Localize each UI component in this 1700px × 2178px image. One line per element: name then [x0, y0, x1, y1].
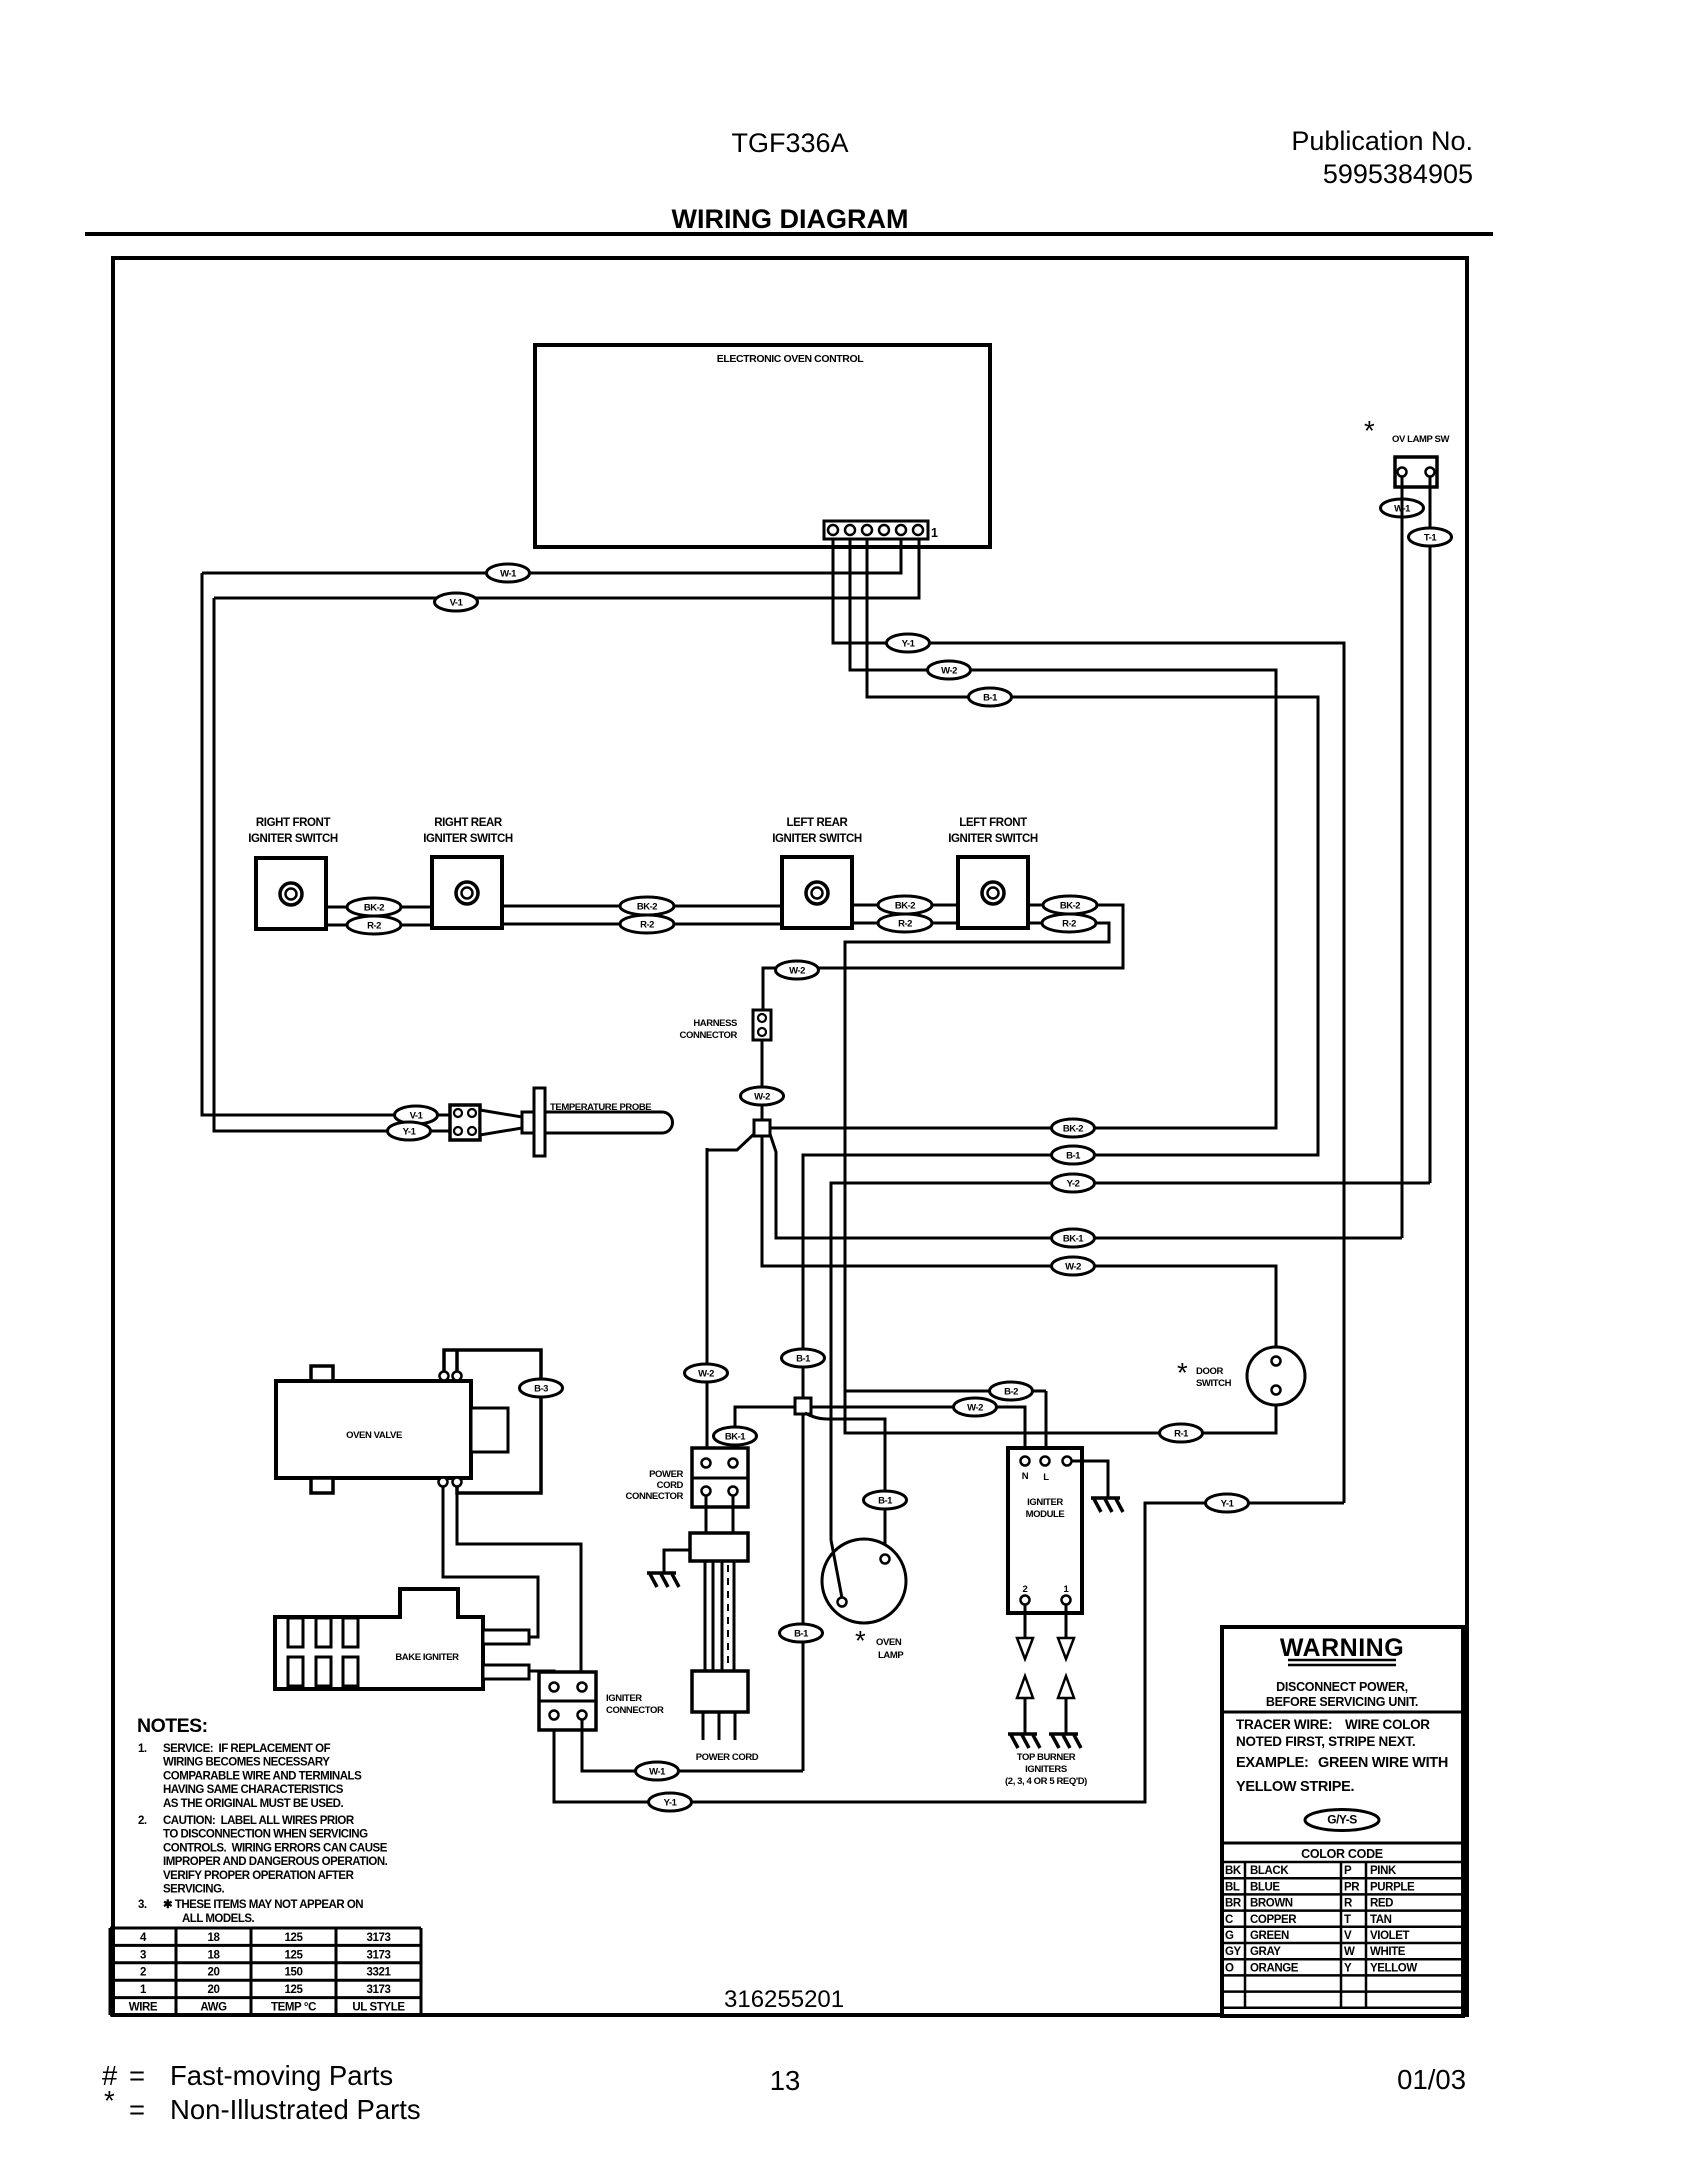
svg-text:R-2: R-2 — [1062, 919, 1076, 930]
svg-text:316255201: 316255201 — [724, 1986, 844, 2013]
svg-text:3: 3 — [140, 1949, 146, 1961]
svg-text:BK-1: BK-1 — [725, 1432, 746, 1443]
svg-text:Y: Y — [1344, 1962, 1352, 1974]
ground power cord — [647, 1573, 679, 1587]
diagram border — [113, 258, 1467, 2015]
wire lamp switch left pin down — [1401, 476, 1404, 1238]
svg-text:3173: 3173 — [367, 1984, 391, 1996]
svg-text:20: 20 — [208, 1984, 220, 1996]
wire harness to upper node — [761, 1040, 764, 1121]
svg-text:LEFT FRONT: LEFT FRONT — [959, 817, 1027, 829]
top burner igniter electrode — [1008, 1734, 1040, 1748]
svg-text:1.: 1. — [138, 1743, 147, 1755]
svg-text:Non-Illustrated Parts: Non-Illustrated Parts — [170, 2094, 421, 2125]
svg-text:EXAMPLE:: EXAMPLE: — [1236, 1755, 1309, 1771]
svg-text:IGNITER SWITCH: IGNITER SWITCH — [423, 833, 513, 845]
power cord upper block — [690, 1533, 748, 1561]
svg-text:3173: 3173 — [367, 1932, 391, 1944]
wire label W-2 — [776, 961, 819, 979]
svg-text:IGNITER SWITCH: IGNITER SWITCH — [248, 833, 338, 845]
wire label W-1 — [636, 1762, 679, 1780]
bake igniter terminal tab lower — [483, 1665, 529, 1679]
top burner igniter electrode — [1049, 1734, 1081, 1748]
svg-text:W-2: W-2 — [754, 1092, 770, 1103]
svg-text:C: C — [1225, 1914, 1233, 1926]
svg-text:WARNING: WARNING — [1280, 1634, 1404, 1662]
igniter module box — [1008, 1448, 1082, 1613]
svg-text:ORANGE: ORANGE — [1250, 1962, 1299, 1974]
svg-text:OV LAMP SW: OV LAMP SW — [1392, 434, 1449, 445]
wire label B-1 — [1052, 1146, 1095, 1164]
wire BK-2 loop to harness connector — [763, 905, 1123, 1010]
svg-text:Y-1: Y-1 — [664, 1798, 678, 1809]
svg-text:BLACK: BLACK — [1250, 1865, 1289, 1877]
wire label R-2 — [347, 916, 401, 934]
module pin L — [1041, 1457, 1050, 1466]
svg-text:BK-2: BK-2 — [1063, 1124, 1083, 1135]
wire label BK-1 — [714, 1427, 757, 1445]
door switch top contact — [1272, 1357, 1281, 1366]
svg-text:BK-1: BK-1 — [1063, 1234, 1084, 1245]
svg-text:TRACER WIRE:: TRACER WIRE: — [1236, 1717, 1332, 1732]
svg-text:Fast-moving Parts: Fast-moving Parts — [170, 2060, 393, 2091]
wire label Y-1 — [649, 1793, 692, 1811]
svg-text:CONNECTOR: CONNECTOR — [680, 1030, 738, 1041]
power cord wires — [704, 1561, 707, 1671]
svg-text:WHITE: WHITE — [1370, 1946, 1406, 1958]
wire connector to cord block — [705, 1495, 708, 1533]
svg-text:WIRE COLOR: WIRE COLOR — [1345, 1717, 1430, 1732]
door switch bottom contact — [1272, 1386, 1281, 1395]
oven valve top tab — [311, 1366, 333, 1381]
svg-text:G/Y-S: G/Y-S — [1327, 1813, 1357, 1827]
svg-text:18: 18 — [208, 1932, 221, 1944]
svg-text:2: 2 — [140, 1967, 146, 1979]
svg-text:OVEN VALVE: OVEN VALVE — [346, 1430, 402, 1441]
wire label BK-2 — [620, 897, 674, 915]
wire R-2 seg3 — [852, 922, 958, 925]
wire to oven lamp left terminal — [831, 1183, 1430, 1540]
wire EOC pin1 Y-1 down right side — [833, 540, 1344, 1503]
EOC pin 5 — [845, 525, 855, 535]
module output lead — [1065, 1604, 1068, 1638]
svg-text:W-2: W-2 — [698, 1369, 714, 1380]
probe connector block — [450, 1105, 480, 1140]
svg-text:IGNITERS: IGNITERS — [1025, 1764, 1067, 1775]
svg-text:B-2: B-2 — [1004, 1387, 1018, 1398]
igniter switch box — [782, 857, 852, 928]
svg-text:B-1: B-1 — [1066, 1151, 1081, 1162]
svg-text:3.: 3. — [138, 1899, 147, 1911]
electronic oven control box — [535, 345, 990, 547]
wire R-2 seg2 — [504, 923, 782, 926]
probe flange plate — [534, 1088, 545, 1156]
oven lamp switch box — [1395, 457, 1437, 487]
svg-text:R-2: R-2 — [367, 921, 381, 932]
svg-text:GRAY: GRAY — [1250, 1946, 1281, 1958]
svg-text:AWG: AWG — [200, 2002, 227, 2014]
svg-text:N: N — [1022, 1471, 1029, 1482]
module pin 2 — [1021, 1596, 1030, 1605]
bake igniter terminal tab upper — [483, 1630, 529, 1644]
svg-text:=: = — [129, 2060, 145, 2091]
bake igniter slot — [316, 1657, 331, 1686]
svg-text:3321: 3321 — [367, 1967, 392, 1979]
svg-text:W-2: W-2 — [1065, 1262, 1081, 1273]
wire label Y-1 — [887, 634, 930, 652]
wire tab2 to igniter connector top left — [529, 1671, 554, 1683]
svg-text:P: P — [1344, 1865, 1352, 1877]
wire to power cord ground — [664, 1550, 690, 1572]
igniter switch box — [432, 857, 502, 928]
wire branch to igniter module L — [845, 1390, 1046, 1393]
svg-text:CORD: CORD — [657, 1480, 684, 1491]
svg-text:GREEN: GREEN — [1250, 1930, 1289, 1942]
igniter switch box — [256, 858, 326, 929]
svg-text:V: V — [1344, 1930, 1352, 1942]
svg-text:SERVICE: IF REPLACEMENT OF: SERVICE: IF REPLACEMENT OF — [163, 1743, 331, 1755]
svg-text:Publication No.: Publication No. — [1291, 126, 1473, 156]
oven valve right terminal stub — [455, 1350, 459, 1374]
svg-text:13: 13 — [770, 2065, 801, 2096]
svg-text:*: * — [104, 2085, 115, 2116]
svg-text:COPPER: COPPER — [1250, 1914, 1297, 1926]
svg-text:BK-2: BK-2 — [364, 903, 384, 914]
module pin 1 — [1062, 1596, 1071, 1605]
svg-text:BK-2: BK-2 — [895, 901, 915, 912]
svg-text:CONNECTOR: CONNECTOR — [626, 1491, 684, 1502]
svg-text:5995384905: 5995384905 — [1323, 159, 1473, 189]
wire left vertical to temperature probe top — [202, 573, 450, 1115]
svg-text:BK-2: BK-2 — [637, 902, 657, 913]
svg-text:TEMP °C: TEMP °C — [271, 2002, 316, 2014]
svg-text:UL STYLE: UL STYLE — [352, 2002, 405, 2014]
wire label Y-1 — [388, 1122, 431, 1140]
door switch body — [1247, 1347, 1305, 1405]
svg-text:RED: RED — [1370, 1898, 1393, 1910]
svg-text:BROWN: BROWN — [1250, 1898, 1293, 1910]
wire EOC pin5 to left W-1 — [202, 540, 901, 573]
wire label BK-2 — [1052, 1119, 1095, 1137]
color code table — [1222, 1842, 1463, 1845]
svg-text:B-1: B-1 — [878, 1496, 893, 1507]
module pin ground — [1063, 1457, 1072, 1466]
svg-text:W: W — [1344, 1946, 1355, 1958]
svg-text:T: T — [1344, 1914, 1351, 1926]
svg-text:IGNITER SWITCH: IGNITER SWITCH — [948, 833, 1038, 845]
svg-text:TOP BURNER: TOP BURNER — [1017, 1752, 1076, 1763]
svg-text:W-2: W-2 — [941, 666, 957, 677]
wire label BK-1 — [1052, 1229, 1095, 1247]
wire label T-1 — [1409, 528, 1452, 546]
svg-text:2.: 2. — [138, 1815, 147, 1827]
svg-text:PINK: PINK — [1370, 1865, 1397, 1877]
EOC connector strip — [824, 521, 928, 539]
harness connector — [753, 1010, 771, 1040]
svg-text:IGNITER SWITCH: IGNITER SWITCH — [772, 833, 862, 845]
svg-text:R-1: R-1 — [1174, 1429, 1189, 1440]
top burner electrode lead — [1024, 1698, 1027, 1733]
wire label W-2 — [928, 661, 971, 679]
svg-text:DOOR: DOOR — [1196, 1366, 1223, 1377]
svg-text:✱ THESE ITEMS MAY NOT APPEAR O: ✱ THESE ITEMS MAY NOT APPEAR ON — [163, 1899, 363, 1911]
bake igniter body — [275, 1589, 483, 1689]
wire label W-2 — [954, 1398, 997, 1416]
wire label R-2 — [1042, 914, 1096, 932]
svg-text:NOTES:: NOTES: — [137, 1715, 208, 1737]
EOC pin 6 — [828, 525, 838, 535]
svg-text:OVEN: OVEN — [876, 1637, 902, 1648]
svg-text:1: 1 — [140, 1984, 147, 1996]
wire module to ground — [1071, 1461, 1108, 1497]
wire label B-3 — [520, 1379, 563, 1397]
svg-text:WIRING BECOMES NECESSARY: WIRING BECOMES NECESSARY — [163, 1757, 330, 1769]
svg-text:Y-1: Y-1 — [1221, 1499, 1235, 1510]
EOC pin 3 — [879, 525, 889, 535]
svg-text:W-1: W-1 — [500, 569, 517, 580]
svg-text:COMPARABLE WIRE AND TERMINALS: COMPARABLE WIRE AND TERMINALS — [163, 1770, 362, 1782]
svg-text:TAN: TAN — [1370, 1914, 1392, 1926]
svg-text:BLUE: BLUE — [1250, 1881, 1280, 1893]
svg-text:R-2: R-2 — [640, 920, 654, 931]
wire node down to door switch top pin — [762, 1136, 1276, 1357]
svg-text:TGF336A: TGF336A — [731, 128, 848, 158]
svg-text:Y-1: Y-1 — [902, 639, 916, 650]
svg-text:POWER CORD: POWER CORD — [696, 1752, 759, 1763]
probe hub — [522, 1112, 540, 1133]
wire BK-2 seg3 — [852, 904, 958, 907]
power cord prong — [718, 1712, 721, 1740]
wire valve to igniter connector top right — [457, 1486, 581, 1683]
svg-text:IGNITER: IGNITER — [1027, 1497, 1063, 1508]
wire node curve to oven lamp right terminal — [805, 1413, 885, 1555]
wire label W-2 — [741, 1087, 784, 1105]
wire node to power cord connector right pin — [735, 1407, 795, 1459]
wire label R-2 — [620, 915, 674, 933]
svg-text:W-1: W-1 — [649, 1767, 666, 1778]
svg-text:BEFORE SERVICING UNIT.: BEFORE SERVICING UNIT. — [1266, 1695, 1418, 1709]
wire label Y-1 — [1206, 1494, 1249, 1512]
wire label BK-2 — [347, 898, 401, 916]
oven lamp body — [822, 1539, 906, 1623]
oven valve bottom tab — [311, 1478, 333, 1493]
svg-text:=: = — [129, 2094, 145, 2125]
svg-text:Y-1: Y-1 — [403, 1127, 417, 1138]
svg-text:BAKE IGNITER: BAKE IGNITER — [395, 1652, 459, 1663]
svg-text:HAVING SAME CHARACTERISTICS: HAVING SAME CHARACTERISTICS — [163, 1784, 344, 1796]
wire R-2 seg1 — [326, 924, 432, 927]
tracer example oval — [1305, 1810, 1379, 1831]
svg-text:ELECTRONIC OVEN CONTROL: ELECTRONIC OVEN CONTROL — [717, 353, 865, 365]
svg-text:BK-2: BK-2 — [1060, 901, 1080, 912]
svg-text:RIGHT FRONT: RIGHT FRONT — [256, 817, 331, 829]
oven valve terminal bottom right — [453, 1478, 462, 1487]
wire label W-2 — [685, 1364, 728, 1382]
svg-text:TO DISCONNECTION WHEN SERVICIN: TO DISCONNECTION WHEN SERVICING — [163, 1829, 368, 1841]
svg-text:(2, 3, 4 OR 5 REQ'D): (2, 3, 4 OR 5 REQ'D) — [1005, 1776, 1087, 1787]
wire node to power cord connector left — [707, 1134, 754, 1150]
svg-text:VERIFY PROPER OPERATION AFTER: VERIFY PROPER OPERATION AFTER — [163, 1870, 355, 1882]
svg-text:1: 1 — [931, 526, 938, 540]
wire right return to igniter connector — [554, 1503, 1344, 1802]
wire down to pin L — [1045, 1391, 1048, 1457]
svg-text:L: L — [1043, 1472, 1049, 1483]
svg-text:150: 150 — [285, 1967, 303, 1979]
wire label BK-2 — [1043, 896, 1097, 914]
svg-text:IGNITER: IGNITER — [606, 1693, 642, 1704]
bake igniter slot — [288, 1657, 303, 1686]
svg-text:PR: PR — [1344, 1881, 1360, 1893]
oven lamp terminal left — [838, 1598, 847, 1607]
wire EOC pin3 to lower node — [803, 540, 1318, 1398]
svg-text:POWER: POWER — [649, 1469, 683, 1480]
svg-text:125: 125 — [285, 1984, 304, 1996]
svg-text:PURPLE: PURPLE — [1370, 1881, 1415, 1893]
oven valve terminal top left — [440, 1372, 449, 1381]
svg-text:CONNECTOR: CONNECTOR — [606, 1705, 664, 1716]
svg-text:125: 125 — [285, 1949, 304, 1961]
module output lead — [1024, 1604, 1027, 1638]
wire EOC pin6 to left V-1 — [214, 540, 919, 598]
svg-text:YELLOW: YELLOW — [1370, 1962, 1417, 1974]
probe rod — [545, 1112, 673, 1133]
svg-text:V-1: V-1 — [450, 598, 464, 609]
svg-text:SERVICING.: SERVICING. — [163, 1884, 225, 1896]
wire R-2 loop down to door switch — [845, 923, 1276, 1433]
wire node to oven lamp switch left pin — [770, 1134, 1402, 1238]
bake igniter slot — [343, 1618, 358, 1647]
bake igniter slot — [288, 1618, 303, 1647]
svg-text:125: 125 — [285, 1932, 304, 1944]
svg-text:AS THE ORIGINAL MUST BE USED.: AS THE ORIGINAL MUST BE USED. — [163, 1798, 343, 1810]
wire label R-1 — [1160, 1424, 1203, 1442]
wire label B-1 — [969, 688, 1012, 706]
EOC pin 2 — [896, 525, 906, 535]
wire label V-1 — [395, 1106, 438, 1124]
bake igniter slot — [343, 1657, 358, 1686]
svg-text:W-2: W-2 — [789, 966, 805, 977]
module pin N — [1021, 1457, 1030, 1466]
svg-text:BR: BR — [1225, 1898, 1242, 1910]
oven lamp terminal right — [881, 1555, 890, 1564]
svg-text:B-3: B-3 — [534, 1384, 548, 1395]
svg-text:VIOLET: VIOLET — [1370, 1930, 1410, 1942]
svg-text:WIRING DIAGRAM: WIRING DIAGRAM — [672, 204, 909, 234]
top burner electrode lead — [1065, 1698, 1068, 1733]
power cord prong — [734, 1712, 737, 1740]
wire EOC pin2 to upper node — [770, 540, 1276, 1128]
oven valve side lug — [471, 1408, 508, 1452]
svg-text:G: G — [1225, 1930, 1234, 1942]
igniter switch box — [958, 857, 1028, 928]
svg-text:2: 2 — [1023, 1584, 1028, 1595]
warning box — [1222, 1627, 1463, 2016]
svg-text:GY: GY — [1225, 1946, 1242, 1958]
power cord prong — [702, 1712, 705, 1740]
oven valve box — [276, 1381, 471, 1478]
svg-text:*: * — [1177, 1357, 1188, 1388]
title underline — [85, 232, 1493, 236]
svg-text:20: 20 — [208, 1967, 220, 1979]
svg-text:R-2: R-2 — [898, 919, 912, 930]
wire igniter connector to power-cord node chain — [582, 1719, 803, 1771]
svg-text:WIRE: WIRE — [129, 2002, 158, 2014]
wire label B-2 — [990, 1382, 1033, 1400]
svg-text:IMPROPER AND DANGEROUS OPERATI: IMPROPER AND DANGEROUS OPERATION. — [163, 1856, 388, 1868]
svg-text:*: * — [1364, 415, 1375, 446]
wire label W-1 — [487, 564, 530, 582]
bake igniter slot — [316, 1618, 331, 1647]
wire label BK-2 — [878, 896, 932, 914]
oven valve terminal bottom left — [439, 1478, 448, 1487]
power cord lower block — [692, 1671, 748, 1712]
wire lower node down to W-1 chain — [802, 1413, 805, 1771]
wire label W-1 — [1381, 499, 1424, 517]
wire node to igniter module N — [811, 1407, 1025, 1457]
wire valve to bake igniter tab1 — [443, 1486, 538, 1637]
wire label W-2 — [1052, 1257, 1095, 1275]
svg-text:LEFT REAR: LEFT REAR — [787, 817, 849, 829]
svg-text:V-1: V-1 — [410, 1111, 424, 1122]
svg-text:BL: BL — [1225, 1881, 1240, 1893]
svg-text:B-1: B-1 — [794, 1629, 809, 1640]
svg-text:COLOR CODE: COLOR CODE — [1301, 1847, 1383, 1861]
oven valve terminal top right — [453, 1372, 462, 1381]
wire label B-1 — [782, 1349, 825, 1367]
svg-text:YELLOW STRIPE.: YELLOW STRIPE. — [1236, 1779, 1355, 1795]
wire label B-1 — [864, 1491, 907, 1509]
svg-text:Y-2: Y-2 — [1067, 1179, 1080, 1190]
svg-text:T-1: T-1 — [1424, 533, 1437, 544]
svg-text:B-1: B-1 — [796, 1354, 811, 1365]
svg-text:DISCONNECT POWER,: DISCONNECT POWER, — [1276, 1680, 1408, 1694]
svg-text:CAUTION: LABEL ALL WIRES PRIO: CAUTION: LABEL ALL WIRES PRIOR — [163, 1815, 355, 1827]
svg-text:TEMPERATURE PROBE: TEMPERATURE PROBE — [550, 1102, 651, 1113]
svg-text:R: R — [1344, 1898, 1353, 1910]
svg-text:18: 18 — [208, 1949, 221, 1961]
svg-text:01/03: 01/03 — [1397, 2064, 1466, 2095]
wire label B-1 — [780, 1624, 823, 1642]
wire BK-2 seg2 — [504, 905, 782, 908]
oven valve wire loop — [444, 1350, 541, 1493]
svg-text:ALL MODELS.: ALL MODELS. — [182, 1913, 255, 1925]
junction node upper — [754, 1120, 770, 1136]
wire lamp switch right pin down — [1429, 476, 1432, 1183]
svg-text:GREEN WIRE WITH: GREEN WIRE WITH — [1318, 1755, 1448, 1771]
svg-text:4: 4 — [140, 1932, 147, 1944]
svg-text:BK: BK — [1225, 1865, 1242, 1877]
EOC pin 1 — [913, 525, 923, 535]
EOC pin 4 — [862, 525, 872, 535]
svg-text:MODULE: MODULE — [1026, 1509, 1065, 1520]
wire label R-2 — [878, 914, 932, 932]
ground igniter module — [1091, 1498, 1123, 1512]
svg-text:W-2: W-2 — [967, 1403, 983, 1414]
oven lamp filament lead — [831, 1540, 842, 1598]
svg-text:HARNESS: HARNESS — [693, 1018, 737, 1029]
svg-text:CONTROLS. WIRING ERRORS CAN C: CONTROLS. WIRING ERRORS CAN CAUSE — [163, 1842, 388, 1854]
warning divider — [1222, 1711, 1463, 1714]
svg-text:NOTED FIRST, STRIPE NEXT.: NOTED FIRST, STRIPE NEXT. — [1236, 1734, 1415, 1749]
svg-text:RIGHT REAR: RIGHT REAR — [434, 817, 503, 829]
power cord connector — [692, 1448, 748, 1507]
svg-text:B-1: B-1 — [983, 693, 998, 704]
svg-text:LAMP: LAMP — [878, 1650, 904, 1661]
wire gauge table — [110, 1927, 421, 1930]
wire BK-2 seg1 — [326, 906, 432, 909]
junction node lower — [795, 1398, 811, 1414]
igniter connector — [539, 1672, 596, 1730]
